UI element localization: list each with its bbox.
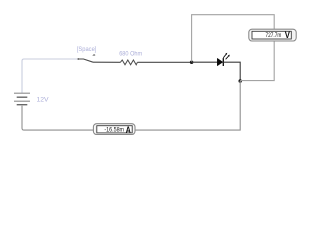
ammeter display [97,126,132,133]
switch blade [78,59,93,62]
voltmeter display [252,31,291,39]
svg-text:[Space]: [Space] [77,46,97,53]
battery long plate lower [14,100,30,102]
LED light arrow 2 [226,55,230,60]
wire: voltmeter - down and left to node B [240,41,274,81]
node B junction dot (LED/voltmeter -/bottom) [238,79,242,83]
wire: node B down to bottom rail corner [135,81,240,130]
ammeter body [93,124,135,135]
LED light arrow 1 [223,53,227,58]
wire: resistor to node A [137,61,191,63]
resistor R1 680 Ohm (zigzag) [120,60,137,65]
wire: node A to LED anode [192,61,218,63]
LED cathode bar [222,58,224,66]
svg-text:V: V [285,30,291,40]
battery short plate upper [17,96,28,98]
LED D1 [217,53,229,66]
voltmeter body [249,29,296,41]
switch press indicator [93,54,96,55]
battery B1 12V [14,93,30,105]
wire: battery positive up and across to switch (light net) [22,59,78,93]
battery long plate top [14,92,30,94]
switch S1 (push switch, closed) [77,54,95,62]
LED triangle (anode) [217,58,223,66]
battery short plate bottom [17,104,28,106]
node A junction dot (resistor/LED/voltmeter tap) [190,60,194,64]
ammeter U2 [93,124,135,135]
wire: switch to resistor [93,61,120,63]
wire: LED cathode right then down to node B [223,62,240,81]
voltmeter U1 [249,29,296,41]
svg-text:12V: 12V [37,97,50,104]
switch pivot contact [77,58,79,60]
svg-text:727.7m: 727.7m [266,32,282,39]
wire: battery negative down to bottom rail [22,106,93,130]
wire: node A up, across the top, down to voltmeter + [192,15,275,62]
svg-text:-16.58m: -16.58m [104,127,124,134]
svg-text:680 Ohm: 680 Ohm [119,50,142,57]
svg-text:A: A [126,125,131,135]
